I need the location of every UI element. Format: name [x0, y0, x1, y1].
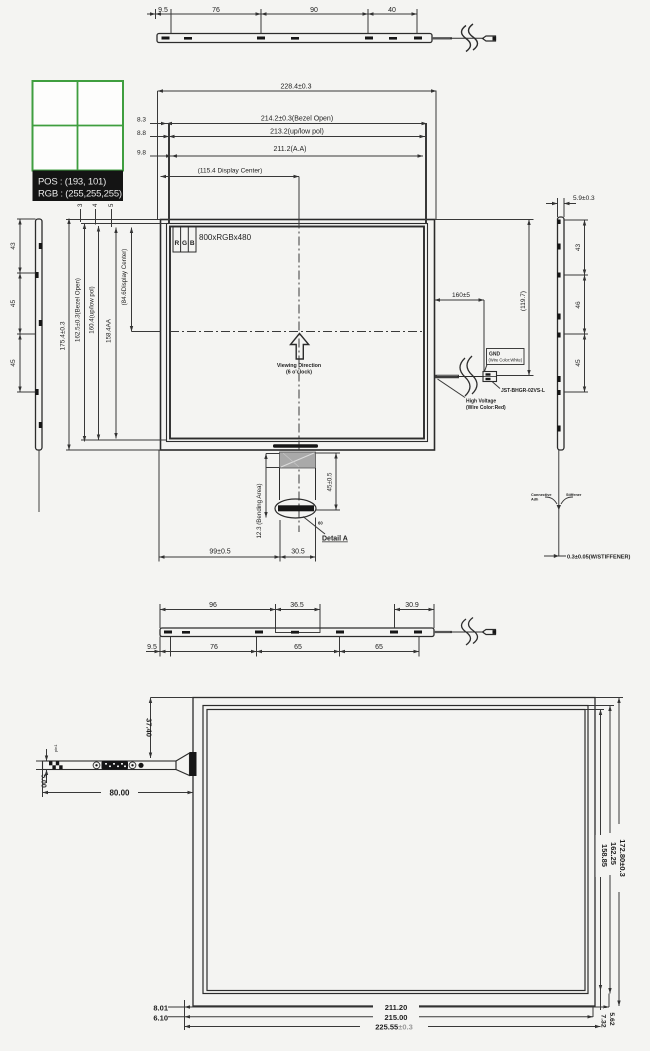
FPC side bar (view 2) [146, 602, 496, 657]
wire connector JST [483, 372, 497, 382]
connector block on tail [93, 762, 100, 769]
glass top extension left [66, 219, 161, 221]
polarizer outline [170, 227, 424, 439]
svg-text:65: 65 [375, 644, 383, 651]
dim 162.5 bezel open [75, 224, 85, 442]
dim 5.00 [36, 749, 47, 788]
svg-text:175.4±0.3: 175.4±0.3 [60, 321, 67, 350]
magnifier white area [33, 81, 124, 171]
svg-text:8.01: 8.01 [153, 1004, 168, 1013]
svg-text:(Wire Color:Red): (Wire Color:Red) [466, 405, 506, 411]
svg-text:9.5: 9.5 [158, 7, 168, 14]
svg-text:Viewing Direction: Viewing Direction [277, 363, 321, 369]
svg-text:65: 65 [294, 644, 302, 651]
svg-text:76: 76 [210, 644, 218, 651]
dimension line 9.5/76/90/40 [147, 13, 156, 15]
svg-text:Stiffener: Stiffener [566, 493, 582, 497]
svg-text:45: 45 [575, 359, 582, 367]
dim 225.55 [185, 1020, 601, 1032]
dim 214.2 bezel open [137, 116, 427, 224]
dim 6.10 / 215.00 [153, 1010, 593, 1022]
svg-text:90: 90 [310, 7, 318, 14]
dim 162.25 [588, 706, 618, 994]
touch FPC tail [43, 744, 197, 776]
bezel bottom extension left [81, 439, 167, 441]
horizontal centerline [170, 331, 424, 333]
svg-text:211.2(A.A): 211.2(A.A) [274, 146, 307, 153]
bottom dims 9.5/76/65/65 [146, 651, 160, 653]
FPC side bar (top view 1) [147, 7, 496, 52]
Detail A label [303, 517, 348, 543]
stiffener sub-rect [276, 628, 321, 633]
dim 158.85 [585, 710, 609, 991]
svg-text:43: 43 [10, 242, 17, 250]
svg-text:6.10: 6.10 [153, 1013, 168, 1022]
svg-text:RGB : (255,255,255): RGB : (255,255,255) [38, 189, 122, 200]
JST part number label [492, 382, 545, 395]
dim 160.4 up/low pol [89, 226, 99, 440]
small gap labels 3 4 5 [78, 203, 115, 227]
svg-text:36.5: 36.5 [290, 602, 304, 609]
svg-text:0.3±0.05(W/STIFFENER): 0.3±0.05(W/STIFFENER) [567, 555, 631, 561]
svg-text:POS : (193, 101): POS : (193, 101) [38, 177, 106, 188]
svg-text:80.00: 80.00 [109, 789, 130, 798]
bezel top extension left [81, 223, 167, 225]
svg-text:9.8: 9.8 [137, 150, 146, 157]
svg-text:30.9: 30.9 [405, 602, 419, 609]
svg-text:5.62: 5.62 [608, 1012, 615, 1025]
dim 0.3 stiffener [544, 554, 631, 561]
svg-text:37.40: 37.40 [145, 718, 154, 737]
left strip dims 43/45/45 [10, 219, 36, 392]
dim 5.9 strip width [546, 195, 595, 217]
glass outline [161, 220, 435, 451]
svg-text:160±5: 160±5 [452, 292, 470, 299]
pads [164, 631, 422, 634]
bezel open outline [167, 224, 428, 442]
dim 158.4 AA [106, 228, 117, 439]
svg-text:Detail A: Detail A [322, 536, 348, 543]
svg-text:pin1: pin1 [53, 744, 58, 752]
GND label box [485, 349, 525, 372]
dim 228.4 [158, 84, 437, 220]
svg-text:Connective: Connective [531, 493, 551, 497]
dim 37.40 [145, 698, 194, 759]
svg-text:(84.6Display Center): (84.6Display Center) [121, 249, 128, 306]
dim 99+-0.5 and 30.5 [159, 450, 316, 562]
magnifier green crosshair [77, 81, 79, 171]
dim 8.01 / 211.20 [153, 1001, 609, 1013]
break squiggle [462, 26, 471, 52]
svg-text:R: R [174, 240, 179, 247]
FPC bent section [280, 468, 316, 500]
svg-text:45: 45 [10, 359, 17, 367]
dim 84.6 display center [121, 228, 161, 332]
svg-text:158.85: 158.85 [600, 844, 609, 867]
vertical centerline [298, 220, 300, 533]
svg-text:76: 76 [212, 7, 220, 14]
dim 115.4 display center [161, 168, 300, 220]
glass bottom extension left [66, 449, 161, 451]
tail connector black [190, 752, 197, 776]
dim 119.7 [435, 220, 534, 376]
svg-text:JST-BHGR-02VS-L: JST-BHGR-02VS-L [501, 388, 545, 394]
bar body [157, 34, 432, 43]
svg-text:228.4±0.3: 228.4±0.3 [280, 84, 311, 91]
svg-text:96: 96 [209, 602, 217, 609]
dim 175.4 [60, 219, 70, 451]
svg-text:9.5: 9.5 [147, 644, 157, 651]
svg-text:162.25: 162.25 [609, 842, 618, 865]
pads on bar [162, 37, 423, 40]
svg-text:5.9±0.3: 5.9±0.3 [573, 195, 595, 202]
svg-text:162.5±0.3(Bezel Open): 162.5±0.3(Bezel Open) [75, 278, 82, 342]
svg-text:45±0.5: 45±0.5 [327, 472, 334, 491]
svg-text:30.5: 30.5 [291, 549, 305, 556]
svg-text:172.80±0.3: 172.80±0.3 [618, 839, 627, 876]
dim 213.2 up/low pol [137, 129, 425, 138]
svg-text:Adh: Adh [531, 498, 539, 502]
svg-text:8.8: 8.8 [137, 130, 146, 137]
High Voltage label [438, 379, 507, 411]
svg-text:225.55±0.3: 225.55±0.3 [375, 1023, 413, 1032]
checker end [49, 761, 63, 769]
right strip dims 43/46/45 [564, 220, 588, 392]
svg-text:60: 60 [318, 521, 323, 526]
wire [432, 37, 452, 39]
dim 160+-5 wire position [435, 292, 485, 371]
bar body [160, 628, 434, 637]
svg-text:(119.7): (119.7) [520, 291, 527, 311]
svg-text:(Wire Color:White): (Wire Color:White) [489, 358, 523, 363]
main front view [161, 220, 435, 533]
svg-text:(115.4 Display Center): (115.4 Display Center) [198, 168, 263, 175]
svg-text:40: 40 [388, 7, 396, 14]
left side strip [35, 219, 42, 512]
svg-text:214.2±0.3(Bezel Open): 214.2±0.3(Bezel Open) [261, 116, 333, 123]
svg-text:High Voltage: High Voltage [466, 399, 496, 405]
backlight wire [435, 356, 484, 396]
svg-text:45: 45 [10, 300, 17, 308]
svg-text:G: G [182, 240, 187, 247]
svg-text:160.4(up/low pol): 160.4(up/low pol) [89, 286, 96, 333]
svg-text:B: B [190, 240, 195, 247]
svg-text:213.2(up/low pol): 213.2(up/low pol) [270, 129, 324, 136]
touch panel inner layer [207, 710, 585, 991]
bottom dim carrier [184, 1000, 186, 1030]
svg-text:99±0.5: 99±0.5 [209, 549, 230, 556]
svg-text:8.3: 8.3 [137, 117, 146, 124]
dim 12.3 bending area [256, 454, 280, 539]
svg-text:7.32: 7.32 [600, 1014, 607, 1027]
RGB pixel boxes [173, 227, 196, 253]
svg-text:158.4AA: 158.4AA [106, 318, 113, 343]
svg-text:43: 43 [575, 244, 582, 252]
dim 5.62 [604, 994, 615, 1031]
svg-text:800xRGBx480: 800xRGBx480 [199, 233, 252, 242]
dark bar above FPC [273, 444, 318, 447]
stiffener callout [531, 493, 582, 510]
touch panel mid layer [203, 706, 588, 994]
info box [33, 171, 124, 202]
connector plug [483, 36, 496, 41]
viewing direction arrow [291, 334, 309, 360]
svg-text:(6 o'clock): (6 o'clock) [286, 370, 312, 376]
dim 7.32 [600, 991, 607, 1028]
FPC bonding area (gray) [280, 452, 316, 468]
wire right [434, 631, 452, 633]
top dims 96/36.5/30.9 [160, 609, 276, 611]
extension ticks [155, 9, 157, 19]
right side strip [557, 217, 564, 556]
magnifier overlay [33, 81, 124, 201]
touch panel outer glass [193, 698, 595, 1007]
svg-text:46: 46 [575, 301, 582, 309]
dim 80.00 [43, 770, 194, 798]
dim 45+-0.5 [316, 453, 341, 510]
svg-text:12.3 (Bending Area): 12.3 (Bending Area) [256, 483, 263, 538]
FPC roll (Detail A ellipse) [275, 499, 316, 518]
tail flare trapezoid [176, 753, 190, 776]
dim 172.80 [595, 698, 627, 1007]
dim 211.2 AA [137, 146, 423, 157]
